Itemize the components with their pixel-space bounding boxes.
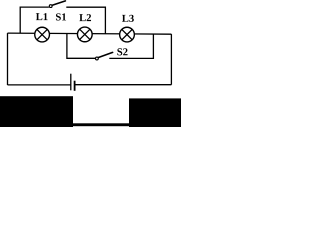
switch S2 pivot [96,57,99,60]
switch S1 pivot [49,5,52,8]
lamp L3 [120,27,135,42]
label L2 [79,14,91,21]
lamp L2 [77,27,92,42]
switch S1 lever [52,1,65,5]
wire: S2 branch left riser [67,34,95,59]
label L3 [122,15,134,22]
wire: main horizontal branch through lamps [8,33,172,34]
wire: left vertical bus [7,33,9,85]
wire: S1 branch top right segment and riser [66,7,105,34]
lamp L1 [35,27,50,42]
switch S2 lever [98,52,112,57]
wire: bottom left wire to battery [8,84,71,86]
battery [71,74,75,91]
label S2 [117,48,127,55]
black redaction bar bottom-middle [73,123,129,126]
label L1 [36,13,48,20]
wire: bottom right wire from battery [75,84,171,86]
wire: right vertical bus [170,34,172,85]
wire: S2 branch right segment and riser [109,34,153,58]
black redaction block bottom-left [0,96,73,127]
wire: S1 branch left riser [20,7,49,33]
black redaction block bottom-right [129,98,181,127]
label S1 [56,13,66,20]
